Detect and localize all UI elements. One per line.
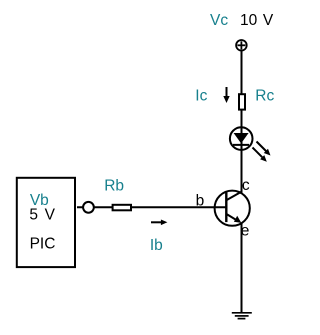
svg-text:V: V [45,206,56,223]
svg-text:V: V [263,12,274,29]
svg-text:Rc: Rc [255,88,274,105]
svg-text:Ic: Ic [195,88,207,105]
svg-text:b: b [196,193,205,210]
svg-text:c: c [242,177,250,194]
svg-text:5: 5 [29,206,38,223]
svg-text:10: 10 [240,12,258,29]
svg-text:PIC: PIC [30,236,56,253]
svg-text:e: e [241,222,250,239]
svg-text:Vc: Vc [210,12,228,29]
svg-text:Ib: Ib [150,237,163,254]
svg-text:Rb: Rb [104,177,124,194]
